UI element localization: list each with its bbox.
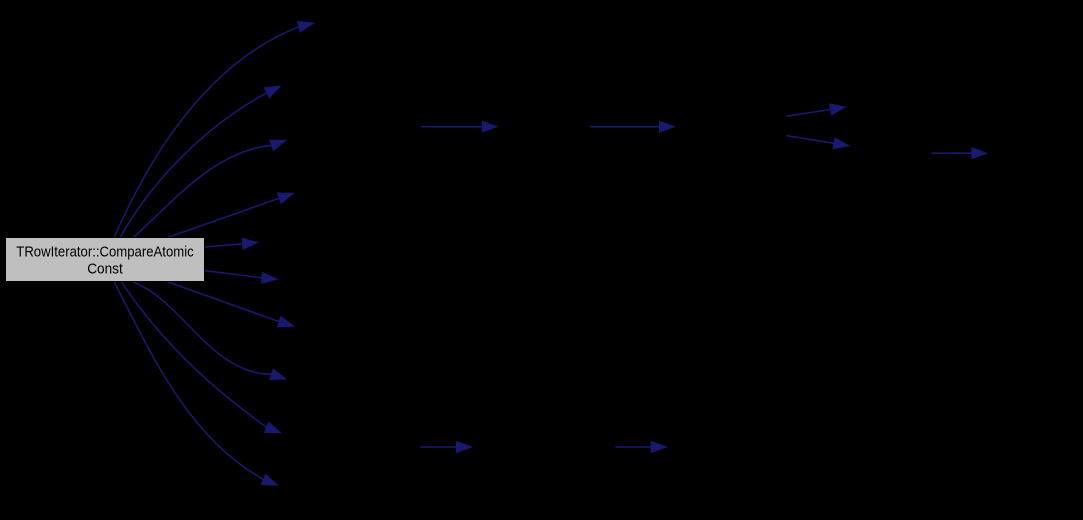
edge 1: main node -> callee 1	[114, 21, 314, 237]
edge 8: main node -> callee 8	[132, 282, 285, 380]
edge 9: main node -> callee 9	[121, 282, 280, 433]
edge 16: bottom chain arrow left	[420, 442, 471, 453]
edge 2: main node -> callee 2	[120, 86, 280, 238]
edge 11: callee 1 -> sub-callee	[421, 121, 497, 132]
edge 5: main node -> callee 5	[205, 238, 258, 249]
edge 12: sub-callee -> sub-sub-callee	[590, 121, 675, 132]
edge 6: main node -> callee 6	[205, 271, 277, 284]
edge 13: fork upper arrow	[787, 104, 846, 116]
svg-text:Const: Const	[87, 260, 123, 277]
edge 10: main node -> callee 10	[114, 282, 277, 486]
edge 4: main node -> callee 4	[168, 193, 294, 237]
edge 7: main node -> callee 7	[167, 282, 293, 327]
edge 17: bottom chain arrow right	[615, 442, 666, 453]
svg-text:TRowIterator::CompareAtomic: TRowIterator::CompareAtomic	[16, 243, 194, 260]
edge 14: fork lower arrow	[787, 136, 849, 149]
edge 3: main node -> callee 3	[133, 140, 285, 237]
node box: TRowIterator::CompareAtomicConst	[6, 238, 205, 282]
edge 15: chain arrow far right	[931, 148, 986, 159]
